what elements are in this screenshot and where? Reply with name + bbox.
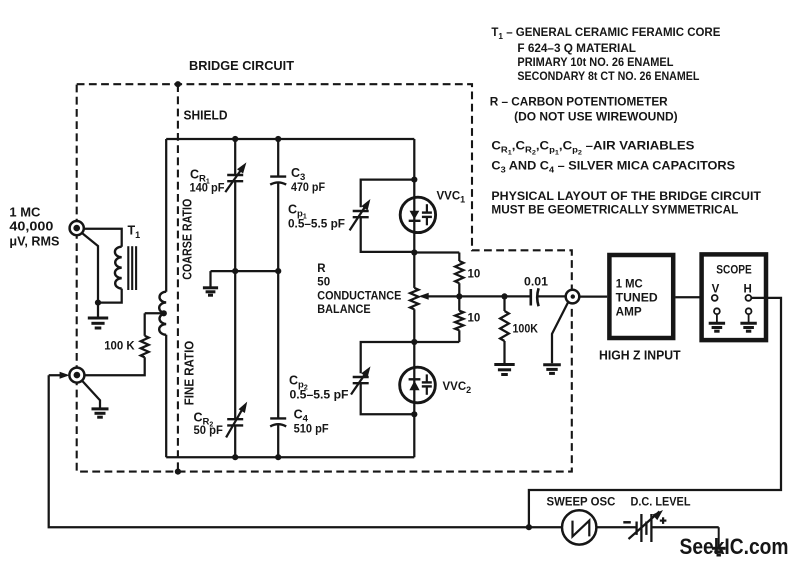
svg-text:100K: 100K — [513, 324, 539, 336]
svg-text:SeekIC.com: SeekIC.com — [680, 534, 789, 559]
svg-text:510 pF: 510 pF — [294, 424, 329, 436]
svg-text:BRIDGE CIRCUIT: BRIDGE CIRCUIT — [189, 58, 294, 73]
svg-text:HIGH Z INPUT: HIGH Z INPUT — [599, 349, 681, 363]
svg-text:F 624–3 Q MATERIAL: F 624–3 Q MATERIAL — [517, 41, 636, 55]
svg-text:10: 10 — [468, 269, 481, 281]
svg-text:SECONDARY 8t CT NO. 26 ENAMEL: SECONDARY 8t CT NO. 26 ENAMEL — [517, 69, 699, 83]
svg-text:(DO NOT USE WIREWOUND): (DO NOT USE WIREWOUND) — [514, 109, 678, 123]
svg-text:CONDUCTANCE: CONDUCTANCE — [317, 290, 401, 302]
svg-text:10: 10 — [468, 312, 481, 324]
svg-text:R – CARBON POTENTIOMETER: R – CARBON POTENTIOMETER — [490, 95, 668, 109]
svg-text:0.01: 0.01 — [524, 277, 549, 289]
svg-text:μV, RMS: μV, RMS — [9, 235, 59, 249]
svg-text:SHIELD: SHIELD — [184, 108, 228, 123]
svg-text:50 pF: 50 pF — [194, 425, 223, 437]
svg-text:R: R — [317, 263, 326, 275]
svg-text:TUNED: TUNED — [616, 292, 658, 304]
svg-text:V: V — [712, 283, 720, 295]
svg-text:0.5–5.5 pF: 0.5–5.5 pF — [290, 390, 349, 402]
svg-text:C3​ AND C4​ – SILVER MICA CAP: C3​ AND C4​ – SILVER MICA CAPACITORS — [491, 159, 735, 175]
svg-text:T1​ – GENERAL CERAMIC FERAMIC: T1​ – GENERAL CERAMIC FERAMIC CORE — [491, 25, 720, 41]
svg-text:AMP: AMP — [616, 307, 642, 319]
svg-text:COARSE RATIO: COARSE RATIO — [181, 198, 195, 279]
svg-text:PRIMARY 10t NO. 26 ENAMEL: PRIMARY 10t NO. 26 ENAMEL — [517, 55, 673, 69]
svg-text:FINE RATIO: FINE RATIO — [183, 340, 197, 405]
svg-text:1 MC: 1 MC — [9, 206, 40, 220]
svg-text:100 K: 100 K — [104, 339, 135, 353]
svg-text:SCOPE: SCOPE — [716, 263, 751, 277]
svg-text:1 MC: 1 MC — [616, 278, 643, 290]
svg-text:MUST BE GEOMETRICALLY SYMMETRI: MUST BE GEOMETRICALLY SYMMETRICAL — [491, 202, 738, 216]
svg-text:H: H — [744, 283, 752, 295]
svg-text:PHYSICAL LAYOUT OF THE BRIDGE: PHYSICAL LAYOUT OF THE BRIDGE CIRCUIT — [491, 189, 761, 203]
svg-text:50: 50 — [317, 277, 330, 289]
svg-text:470 pF: 470 pF — [291, 182, 325, 194]
svg-text:0.5–5.5 pF: 0.5–5.5 pF — [288, 219, 345, 231]
svg-text:SWEEP OSC: SWEEP OSC — [547, 497, 616, 509]
svg-text:BALANCE: BALANCE — [317, 304, 371, 316]
svg-text:40,000: 40,000 — [9, 220, 53, 234]
svg-text:D.C. LEVEL: D.C. LEVEL — [631, 497, 691, 509]
svg-text:140 pF: 140 pF — [190, 183, 225, 195]
